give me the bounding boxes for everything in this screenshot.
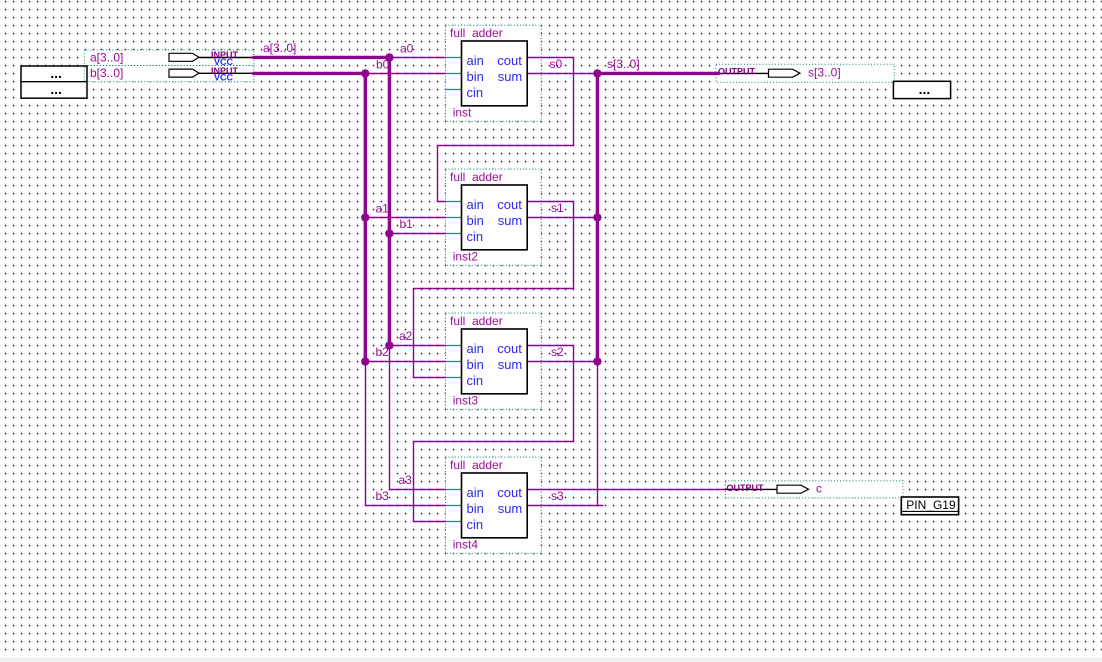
svg-text:...: ... <box>919 81 931 97</box>
svg-text:b0: b0 <box>376 57 390 71</box>
svg-text:bin: bin <box>467 501 484 516</box>
svg-text:...: ... <box>50 81 62 97</box>
svg-text:PIN_G19: PIN_G19 <box>906 498 956 512</box>
svg-text:ain: ain <box>467 341 484 356</box>
svg-text:ain: ain <box>467 485 484 500</box>
svg-text:s1: s1 <box>551 201 564 215</box>
svg-text:full adder: full adder <box>450 458 503 472</box>
svg-text:inst4: inst4 <box>453 537 479 551</box>
svg-text:b[3..0]: b[3..0] <box>90 66 123 80</box>
svg-text:OUTPUT: OUTPUT <box>727 483 765 493</box>
svg-text:cout: cout <box>497 197 522 212</box>
svg-text:s[3..0]: s[3..0] <box>607 57 640 71</box>
svg-text:sum: sum <box>498 357 523 372</box>
svg-text:cout: cout <box>497 53 522 68</box>
svg-text:VCC: VCC <box>214 73 234 83</box>
svg-text:s[3..0]: s[3..0] <box>808 66 841 80</box>
svg-text:sum: sum <box>498 501 523 516</box>
svg-text:c: c <box>816 481 822 495</box>
svg-text:cin: cin <box>467 85 484 100</box>
svg-text:bin: bin <box>467 213 484 228</box>
svg-text:cin: cin <box>467 517 484 532</box>
svg-text:ain: ain <box>467 197 484 212</box>
svg-text:a0: a0 <box>400 41 414 55</box>
svg-text:sum: sum <box>498 69 523 84</box>
svg-text:full adder: full adder <box>450 314 503 328</box>
svg-text:full adder: full adder <box>450 26 503 40</box>
svg-text:bin: bin <box>467 357 484 372</box>
svg-text:s2: s2 <box>551 345 564 359</box>
svg-text:a[3..0]: a[3..0] <box>263 41 296 55</box>
svg-text:full adder: full adder <box>450 170 503 184</box>
svg-text:ain: ain <box>467 53 484 68</box>
svg-text:cin: cin <box>467 229 484 244</box>
svg-text:a3: a3 <box>399 473 413 487</box>
svg-text:...: ... <box>50 65 62 81</box>
svg-text:cout: cout <box>497 485 522 500</box>
svg-text:b1: b1 <box>400 217 414 231</box>
svg-text:a[3..0]: a[3..0] <box>90 50 123 64</box>
svg-text:inst3: inst3 <box>453 393 479 407</box>
svg-text:b3: b3 <box>376 489 390 503</box>
svg-text:s3: s3 <box>551 489 564 503</box>
svg-text:cout: cout <box>497 341 522 356</box>
svg-text:b2: b2 <box>376 345 390 359</box>
svg-text:sum: sum <box>498 213 523 228</box>
svg-text:inst2: inst2 <box>453 249 479 263</box>
svg-text:cin: cin <box>467 373 484 388</box>
svg-text:bin: bin <box>467 69 484 84</box>
svg-text:a2: a2 <box>399 329 413 343</box>
svg-text:a1: a1 <box>376 201 390 215</box>
svg-text:inst: inst <box>453 105 472 119</box>
svg-text:s0: s0 <box>550 57 563 71</box>
svg-text:OUTPUT: OUTPUT <box>718 67 756 77</box>
